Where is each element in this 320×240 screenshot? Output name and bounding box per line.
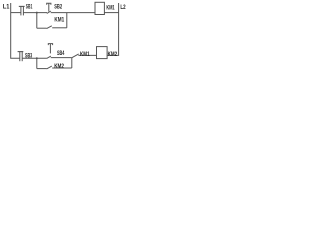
wire blade to coil KM2 [78, 54, 96, 56]
node A junction dot [36, 12, 38, 14]
contact KM2 aux blade [47, 66, 52, 69]
svg-text:KM1: KM1 [80, 51, 90, 58]
svg-text:SB4: SB4 [57, 50, 65, 57]
pushbutton SB2 blade [47, 11, 51, 13]
pushbutton SB2 stem [48, 3, 50, 11]
wire L1 to SB1 [11, 12, 21, 14]
node D riser [71, 58, 73, 68]
node B riser [66, 13, 68, 28]
rail L2 [107, 3, 119, 55]
node C junction bottom branch drop [36, 58, 38, 68]
wire SB3 to SB4 [22, 57, 47, 59]
coil KM2 box [97, 47, 108, 59]
svg-text:L2: L2 [120, 4, 125, 11]
svg-text:KM1: KM1 [54, 16, 64, 23]
contact KM1 series blade [72, 54, 79, 58]
pushbutton SB3 contact bars [19, 52, 21, 61]
node C junction dot [36, 57, 38, 59]
wire branch1 lower right [52, 27, 67, 29]
svg-text:KM2: KM2 [108, 51, 118, 58]
svg-text:SB3: SB3 [25, 52, 32, 59]
pushbutton SB3 (NC) cap [18, 51, 24, 53]
wire branch1 lower left [37, 27, 47, 29]
coil KM1 box [95, 2, 104, 14]
pushbutton SB4 (NO) cap [48, 44, 52, 46]
svg-text:SB2: SB2 [54, 4, 62, 11]
svg-text:SB1: SB1 [26, 4, 33, 11]
svg-text:KM1: KM1 [106, 4, 114, 11]
wire SB4 to node D [51, 57, 72, 59]
rail L1 [11, 3, 20, 58]
contact KM1 aux blade [47, 26, 52, 29]
wire coil KM1 to rail L2 [104, 12, 118, 14]
wire SB2 to coil KM1 [51, 12, 95, 14]
pushbutton SB4 stem [49, 44, 51, 54]
wire branch2 lower right [52, 67, 72, 69]
node A junction [36, 13, 38, 29]
svg-text:KM2: KM2 [54, 63, 64, 70]
pushbutton SB4 blade [47, 56, 51, 58]
pushbutton SB1 contact bars [20, 7, 22, 16]
svg-text:L1: L1 [3, 4, 10, 11]
wire SB1 to SB2 [23, 12, 47, 14]
pushbutton SB2 (NO) cap [47, 3, 51, 4]
pushbutton SB1 (NC) cap [19, 5, 25, 7]
wire branch2 lower left [37, 68, 47, 70]
